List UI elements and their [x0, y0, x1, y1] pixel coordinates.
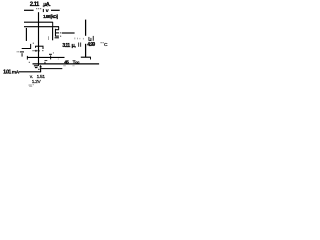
current leader line [19, 71, 41, 73]
result text row cut [29, 84, 32, 87]
resistor R1 box bottom edge [24, 26, 59, 28]
transistor Q2 collector lead [30, 44, 32, 49]
resistor R1 box right edge [52, 22, 54, 27]
stub above rail [44, 62, 46, 64]
wire M1 drain to node B [62, 32, 75, 34]
faint dots node B label [74, 38, 75, 40]
svg-text:4.99: 4.99 [87, 42, 95, 48]
dot mark [52, 52, 55, 55]
wire source rail [27, 56, 64, 58]
wire from top rail down through resistor to ground (vertical bus) [38, 12, 40, 42]
current arrow shaft [40, 67, 42, 72]
transistor Q3 left leg [35, 46, 37, 48]
transistor M1 source lead [55, 37, 59, 39]
transistor Q3 channel bar [35, 45, 43, 47]
dotted leader on top wire [36, 8, 37, 9]
svg-text:1.51: 1.51 [37, 74, 46, 80]
transistor M1 source stub [55, 35, 59, 37]
junction dot small [28, 61, 31, 64]
svg-text:mA: mA [12, 70, 20, 76]
wire hook down at right [90, 57, 92, 59]
bottom ground rail [33, 63, 100, 65]
wire vertical node B upper [85, 20, 87, 36]
probe tick on source rail left [26, 56, 28, 60]
probe tick left [21, 53, 23, 56]
ammeter probe marks [42, 5, 45, 8]
svg-text:C: C [104, 42, 108, 48]
wire vertical node B lower [85, 44, 87, 58]
wire top rail right segment [51, 9, 60, 11]
dash below source wire [45, 60, 48, 62]
unit strokes [77, 43, 80, 47]
minus sign [49, 53, 52, 55]
transistor M1 body stub [55, 32, 59, 34]
transistor M1 drain stub [55, 29, 59, 31]
gate lead faint tick [48, 36, 50, 40]
wire rail to M1 drain [58, 27, 60, 30]
node label faint marks below rail [63, 64, 66, 67]
node B unit marks [88, 37, 91, 41]
resistor R1 box top edge [24, 21, 53, 23]
wire bottom bar of source branch [81, 56, 91, 58]
svg-text:μA.: μA. [43, 2, 51, 8]
wire gate to vertical [32, 50, 39, 52]
junction dot node A [32, 42, 35, 45]
svg-text:[kΩ]: [kΩ] [51, 14, 59, 19]
leader line to Vcc label [41, 68, 62, 70]
wire Q2 base lead left [22, 48, 31, 50]
dot on wire [57, 58, 60, 61]
svg-text:1.01: 1.01 [3, 69, 11, 75]
svg-text:2.11: 2.11 [30, 2, 40, 8]
probe tick on source rail right [50, 55, 52, 59]
transistor M1 gate bar [52, 27, 54, 40]
svg-text:3.11: 3.11 [62, 43, 70, 49]
dotted leader right [101, 42, 102, 43]
transistor Q3 stem [38, 42, 40, 46]
wire top rail left segment [24, 9, 34, 11]
ground symbol [34, 65, 38, 67]
transistor M1 channel bar [54, 29, 56, 37]
transistor Q3 right leg [42, 46, 44, 49]
current arrow head [39, 65, 42, 68]
wire down to ground [38, 46, 40, 66]
probe dash left [20, 51, 24, 53]
transistor Q3 gate bar pieces [35, 50, 37, 52]
probe dots left [16, 50, 19, 53]
wire rail down to Q2 [25, 28, 27, 41]
